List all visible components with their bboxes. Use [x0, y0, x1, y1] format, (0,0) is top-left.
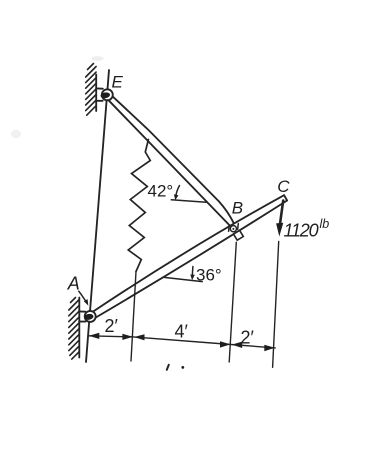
- force arrow 1120 lb: [276, 201, 283, 237]
- spring: [128, 140, 150, 272]
- 42deg reference line: [171, 200, 206, 202]
- extension line below spring: [131, 272, 136, 362]
- bracket at E: [96, 87, 103, 89]
- svg-text:B: B: [232, 199, 243, 218]
- wall hatching at E: [86, 64, 96, 116]
- member EB: [109, 96, 234, 226]
- dim arrow 2ft-right left: [232, 342, 243, 348]
- dim arrow far right: [264, 345, 275, 351]
- stray tick mark: [167, 365, 169, 370]
- svg-text:A: A: [67, 274, 80, 294]
- svg-text:36°: 36°: [196, 266, 222, 285]
- svg-text:lb: lb: [320, 217, 330, 231]
- member AC: [93, 195, 287, 317]
- pin B: [229, 224, 239, 232]
- dim arrow 4ft right: [220, 341, 231, 347]
- dim arrow 2ft right: [122, 334, 132, 340]
- extension line below B: [229, 242, 236, 362]
- slider block at B: [234, 230, 244, 240]
- extension line below force arrow (from C): [273, 242, 279, 368]
- svg-text:42°: 42°: [148, 182, 174, 201]
- dim arrow at A line (left): [89, 333, 100, 339]
- wall line through E and A: [86, 70, 109, 362]
- dim arrow 4ft left: [134, 334, 145, 340]
- faint smudge top of wall: [92, 56, 104, 61]
- 36deg arc arrow: [190, 267, 195, 281]
- faint smudge left margin: [11, 130, 21, 139]
- svg-text:1120: 1120: [284, 221, 319, 241]
- pin E: [100, 89, 113, 100]
- 36deg reference line: [163, 277, 202, 281]
- dimension line: [88, 336, 275, 348]
- svg-text:C: C: [277, 177, 290, 196]
- wall face line at E: [95, 75, 97, 112]
- wall face line at A: [78, 298, 80, 358]
- wall hatching at A: [69, 298, 79, 360]
- stray dot: [181, 366, 184, 369]
- bracket at A: [79, 310, 85, 312]
- 42deg arc arrow: [174, 186, 180, 201]
- leader arrow from label A to pin: [79, 291, 89, 305]
- svg-text:2′: 2′: [105, 316, 119, 336]
- svg-text:4′: 4′: [175, 322, 189, 342]
- svg-text:2′: 2′: [241, 328, 255, 348]
- pin A: [83, 311, 95, 322]
- svg-text:E: E: [112, 73, 124, 92]
